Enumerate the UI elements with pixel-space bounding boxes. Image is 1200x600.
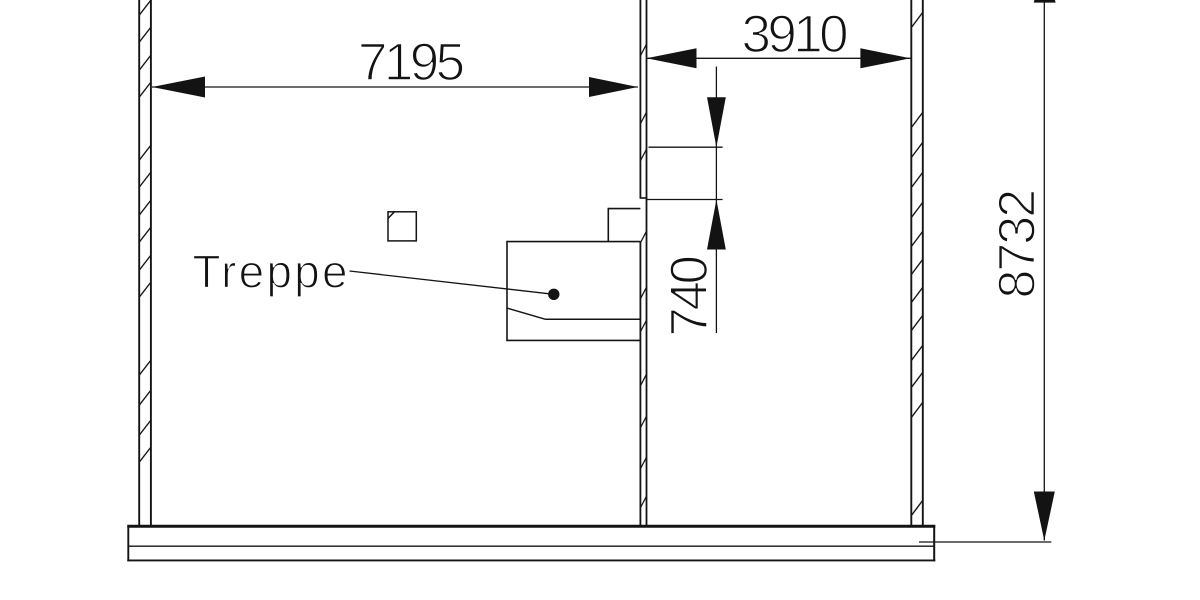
right wall hatching <box>911 12 923 516</box>
wall notch above stair <box>608 208 640 242</box>
svg-text:740: 740 <box>660 256 719 336</box>
right wall <box>911 0 923 526</box>
middle wall <box>640 0 646 526</box>
floor slab <box>127 525 935 561</box>
dimension 8732 vertical line <box>1043 2 1045 541</box>
dimension 3910 left arrow <box>647 48 697 68</box>
left wall hatching <box>139 0 151 463</box>
middle wall jog at opening <box>640 197 648 199</box>
svg-text:Treppe: Treppe <box>193 246 350 298</box>
left wall <box>139 0 151 526</box>
dimension 740 vertical line <box>715 67 717 334</box>
dimension 8732 bottom arrow <box>1034 492 1055 541</box>
svg-text:7195: 7195 <box>358 33 464 92</box>
svg-text:3910: 3910 <box>742 5 848 64</box>
svg-text:8732: 8732 <box>989 191 1047 299</box>
dimension 3910 right arrow <box>860 48 910 68</box>
middle wall hatching <box>640 44 646 508</box>
stair cut line <box>507 308 640 319</box>
dimension 7195 right arrow <box>589 77 638 97</box>
dimension 3910 line <box>647 57 911 59</box>
small square opening <box>388 212 416 241</box>
dimension 7195 left arrow <box>152 77 205 98</box>
dimension 740 upper extension line <box>649 146 723 148</box>
dimension 8732 extension line <box>919 541 1051 543</box>
dimension 7195 line <box>152 86 638 88</box>
leader dot <box>548 289 559 300</box>
stair box <box>507 241 640 341</box>
dimension 740 lower extension line <box>646 199 723 201</box>
leader line <box>350 271 554 294</box>
dimension 740 down arrow <box>707 97 726 147</box>
dimension 8732 top arrow (cropped) <box>1034 0 1056 3</box>
dimension 740 up arrow <box>707 200 726 250</box>
